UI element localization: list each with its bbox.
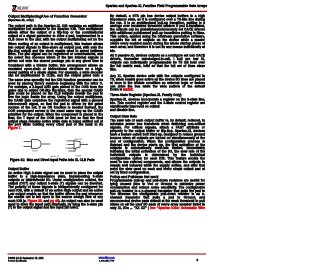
output buffer line with red links <box>8 199 103 202</box>
mux input wires <box>68 141 74 148</box>
figure: AND gate + mux drawing <box>23 137 96 159</box>
right paragraph 1 <box>110 14 205 48</box>
right p4 short last line <box>110 108 205 111</box>
right paragraph 4 <box>110 98 205 108</box>
header title <box>106 4 207 8</box>
mux trapezoid body <box>74 141 80 149</box>
and gate output wire <box>42 143 50 146</box>
footer left line 1 <box>8 257 44 260</box>
left paragraph 3 <box>8 64 103 78</box>
heading Three-State Register <box>110 93 181 96</box>
right paragraph 2 <box>110 54 205 68</box>
node dot on mux output <box>86 144 87 145</box>
footer center www.xilinx.com <box>94 256 120 259</box>
output buffer paragraph part 1 <box>8 171 103 199</box>
red cross-reference Figure 7 <box>8 126 103 129</box>
heading: Output Multiplexing <box>8 15 87 18</box>
heading Output Buffer <box>8 167 29 170</box>
and gate body <box>32 140 42 149</box>
svg-text:DIN OUT: DIN OUT <box>74 139 83 141</box>
right paragraph 6 <box>110 179 205 207</box>
left paragraph 2 <box>8 42 103 63</box>
right p6 final line with red link <box>110 206 205 209</box>
mux bottom route wire <box>69 148 76 151</box>
heading Output Slew Rate <box>110 115 137 118</box>
and gate input wires <box>24 142 32 147</box>
footer left line 2 <box>8 260 27 262</box>
figure 31 caption <box>10 158 95 162</box>
svg-text:XILINX: XILINX <box>16 5 29 10</box>
svg-text:S: S <box>66 144 68 146</box>
svg-text:X5837: X5837 <box>32 150 39 152</box>
output buffer paragraph part 2 <box>8 202 103 209</box>
footer rule <box>8 254 207 255</box>
right paragraph 5 <box>110 119 205 171</box>
right p2 short last line <box>110 68 205 71</box>
left paragraph 1 <box>8 24 103 41</box>
right p5 short last line <box>110 170 205 173</box>
right paragraph 3 <box>110 74 205 88</box>
left paragraph 4 <box>8 78 103 126</box>
heading Pullup and Pulldown Network <box>110 175 158 178</box>
svg-text:®: ® <box>29 5 31 8</box>
mux output wire <box>80 143 86 146</box>
footer page number <box>197 258 199 262</box>
header logo Xilinx <box>12 5 30 11</box>
right p3 last line with red word <box>110 88 205 91</box>
header rule <box>12 11 207 12</box>
footer center phone <box>94 259 120 262</box>
svg-text:X5838: X5838 <box>75 155 82 157</box>
right p1 short last line <box>110 49 205 52</box>
